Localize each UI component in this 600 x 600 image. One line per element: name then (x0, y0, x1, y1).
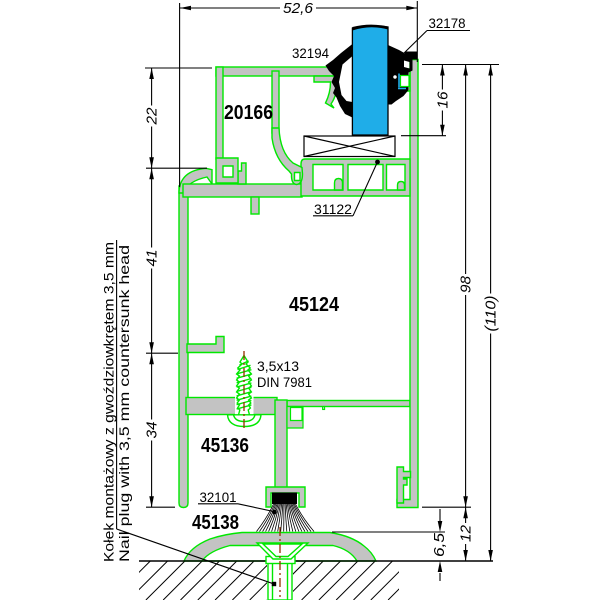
dimension 6,5 (332, 531, 445, 533)
dimension chain 22 / 41 / 34 (145, 67, 212, 69)
svg-text:6,5: 6,5 (431, 532, 448, 557)
svg-text:45136: 45136 (201, 435, 249, 457)
frame 45124 top-left shoulder (179, 168, 212, 193)
dimension 12 (465, 507, 467, 561)
svg-text:45124: 45124 (289, 294, 340, 316)
screw 3,5x13 DIN 7981 (235, 397, 254, 416)
dimension 52,6 (179, 3, 181, 187)
dimension 16 (422, 64, 499, 66)
glazing bead 20166 middle wall (272, 71, 279, 133)
dimension 98 (422, 506, 471, 508)
svg-text:22: 22 (144, 107, 161, 126)
svg-text:45138: 45138 (192, 512, 239, 534)
glazing support profile 31122 (301, 159, 410, 196)
clip white notch (401, 76, 410, 87)
svg-text:32194: 32194 (292, 45, 329, 61)
31122 screw boss 1 (335, 179, 343, 191)
frame glazing leg right wall (397, 60, 418, 508)
brush holder (266, 487, 305, 507)
nail plug centerline (279, 527, 281, 597)
frame lower web left part (186, 398, 277, 415)
frame 45124 web stub (251, 197, 259, 214)
svg-text:98: 98 (458, 275, 475, 293)
glazing bead 20166 curved bottom arm (272, 128, 303, 185)
brush bristles (257, 504, 315, 532)
svg-text:Nail plug with 3,5 mm counters: Nail plug with 3,5 mm countersunk head (116, 245, 132, 562)
frame 45124 bead hook (238, 163, 246, 184)
screw centerline (243, 351, 245, 431)
svg-text:12: 12 (458, 524, 475, 542)
gasket cap over leg top (405, 52, 418, 60)
glass top edge cap (352, 25, 388, 31)
glazing gasket 32178 (right, black) (388, 45, 413, 105)
svg-text:DIN 7981: DIN 7981 (257, 374, 312, 390)
side note leader to nail plug (116, 240, 118, 529)
frame 45136 right wall (275, 400, 287, 490)
glazing bead 20166 left wall (216, 67, 223, 159)
glazing gasket 32194 (left, black) (326, 44, 353, 118)
svg-text:16: 16 (434, 91, 451, 109)
svg-text:32101: 32101 (200, 489, 237, 505)
leg bottom S-hook (397, 467, 411, 503)
ground hatch (94, 561, 427, 600)
frame lower web right thin part (287, 401, 410, 407)
glazing bead 20166 foot (216, 158, 238, 183)
frame 45124 left wall (179, 186, 188, 508)
frame hook under web (287, 407, 303, 429)
brush seal 32101 block (272, 493, 297, 505)
clip cyan marks (398, 74, 406, 89)
leg top clip seat (401, 69, 410, 91)
svg-text:20166: 20166 (224, 102, 273, 124)
dimension (110) (490, 65, 492, 562)
svg-text:3,5x13: 3,5x13 (257, 358, 299, 374)
frame 45124 upper web (183, 184, 302, 197)
svg-text:Kołek montażowy z gwoździowkrę: Kołek montażowy z gwoździowkrętem 3,5 mm (101, 242, 117, 562)
svg-text:32178: 32178 (429, 15, 466, 31)
svg-text:41: 41 (144, 250, 161, 267)
web underside nub (323, 407, 325, 410)
31122 screw boss 2 (398, 182, 405, 191)
svg-text:34: 34 (144, 422, 161, 439)
frame 45124 mid arm (187, 337, 224, 353)
glass pane (352, 26, 388, 135)
nail plug countersunk screw (257, 543, 308, 600)
svg-text:52,6: 52,6 (283, 0, 314, 17)
threshold profile 45138 dome (184, 533, 376, 562)
svg-text:31122: 31122 (314, 201, 352, 217)
svg-text:(110): (110) (483, 295, 500, 331)
glazing bead 20166 gasket lip (314, 76, 338, 108)
setting block crossed box (304, 136, 395, 157)
ground line (139, 560, 493, 562)
glazing bead 20166 top bar (216, 67, 338, 76)
